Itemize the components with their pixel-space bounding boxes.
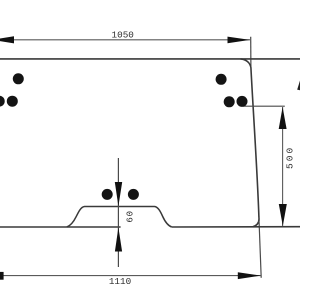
glass right edge with rounded top corner and bottom corner	[241, 59, 260, 227]
arrowhead left of dimension 1110 (clipped at image edge)	[0, 272, 4, 280]
svg-text:60: 60	[125, 210, 135, 222]
mounting hole bottom-center right	[128, 189, 139, 200]
glass bottom edge right segment plus extension to right image edge	[172, 226, 300, 228]
mounting hole top-left group lower-right	[7, 96, 18, 107]
extension line upper reference for 500 dimension	[243, 105, 285, 107]
mounting hole top-right group upper	[216, 74, 227, 85]
glass top edge (with extension line to right image edge)	[0, 58, 300, 60]
svg-text:1050: 1050	[112, 30, 134, 41]
mounting hole top-left group upper	[13, 73, 24, 84]
extension line from 1050 right arrow down to glass corner	[250, 37, 252, 67]
arrowhead up of dimension 500	[279, 107, 287, 129]
dimension line 1050	[0, 39, 250, 41]
dimension line 60 (vertical through hump)	[117, 158, 119, 267]
clipped arrowhead of off-image dimension at right edge	[297, 81, 300, 91]
arrowhead left of dimension 1050 (clipped at image edge)	[0, 36, 14, 43]
mounting hole bottom-center left	[102, 189, 113, 200]
mounting hole top-right group lower-right	[237, 96, 248, 107]
arrowhead down of dimension 60	[115, 182, 122, 206]
arrowhead down of dimension 500	[279, 204, 287, 226]
arrowhead right of dimension 1110	[238, 272, 261, 279]
arrowhead right of dimension 1050	[228, 37, 251, 44]
dimension line 500	[282, 107, 284, 226]
hump (raised center section of bottom edge)	[67, 207, 172, 228]
svg-text:500: 500	[285, 146, 296, 169]
svg-text:1110: 1110	[109, 276, 131, 287]
glass bottom edge left segment plus extension under hump to 60-dim line	[0, 226, 121, 228]
mounting hole top-right group lower-left	[224, 96, 235, 107]
arrowhead up of dimension 60	[115, 227, 122, 251]
extension line from glass bottom corner down to 1110 dimension line	[259, 217, 261, 278]
mounting hole top-left group lower-left (clipped at image edge)	[0, 96, 5, 107]
dimension line 1110	[0, 275, 261, 277]
